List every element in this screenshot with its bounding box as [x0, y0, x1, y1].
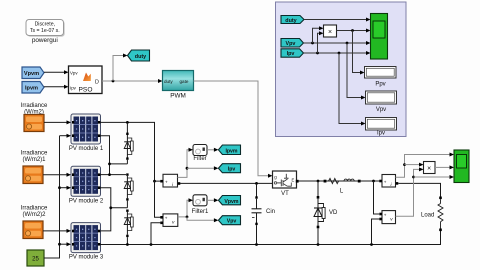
svg-text:Filter1: Filter1 [192, 209, 209, 215]
wire product to scope input 2 [435, 165, 454, 169]
svg-text:PWM: PWM [170, 93, 186, 100]
svg-text:Ipvm: Ipvm [25, 86, 38, 92]
wire duty to scope input 1 [304, 18, 371, 22]
wire Filter to Ipvm goto [207, 148, 218, 152]
voltage measurement v1 [160, 214, 178, 227]
product block output stage [424, 162, 436, 174]
bypass diode D1 [124, 122, 133, 163]
junction scope input 3 branch [412, 176, 415, 179]
From tag Ipvm [22, 82, 44, 94]
signal wire v1 to Filter1 and Vpv [178, 198, 193, 217]
svg-text:Ipv: Ipv [377, 130, 385, 136]
svg-text:+: + [384, 180, 387, 185]
Irradiance (W/m2)1 label [21, 151, 48, 164]
output scope [454, 150, 469, 183]
svg-text:duty: duty [285, 18, 296, 24]
display Ppv [365, 67, 397, 79]
svg-text:(W/m2)2: (W/m2)2 [23, 212, 47, 218]
svg-text:Vpvm: Vpvm [24, 71, 39, 77]
junction temp module3 [58, 243, 61, 246]
svg-text:(W/m2)1: (W/m2)1 [23, 157, 47, 163]
svg-text:powergui: powergui [32, 37, 58, 44]
wire v1 minus to bus [151, 223, 162, 245]
wire constant 25 to temperature bus [44, 244, 60, 258]
signal wire v2 to scope input 3 [396, 167, 424, 216]
signal wire i2 to scope and product [396, 153, 455, 178]
svg-text:D: D [95, 80, 99, 86]
junction on D wire [112, 80, 115, 83]
wire to scope input 3 [414, 175, 455, 179]
wire to Vpv display [347, 43, 366, 100]
junction bus VD [317, 243, 320, 246]
junction PV positive at current input [153, 180, 156, 183]
wire main line to v2 plus [374, 181, 380, 214]
wire Vpvm to PSO [44, 70, 69, 74]
junction diode1 top [126, 121, 129, 124]
wire irradiance1 to PV module 1 [44, 120, 71, 124]
junction output v2 branch [372, 180, 375, 183]
Goto tag Vpvm [218, 196, 240, 205]
Irradiance (W/m2)2 label [21, 206, 48, 219]
svg-text:Vpv: Vpv [376, 107, 386, 113]
wire node N2 module2- to module3+ [101, 188, 128, 231]
junction N2 diode stub [109, 206, 112, 209]
svg-text:PSO: PSO [79, 87, 93, 94]
junction Ppv display branch [351, 29, 354, 32]
current measurement i1 [160, 174, 180, 188]
wire PV positive to voltage measurement [155, 181, 162, 217]
From tag Vpv in panel [281, 39, 304, 48]
signal wire i1 to Filter and Ipv [178, 148, 194, 178]
wire temp to PV module 1 input 2 [60, 134, 72, 138]
svg-text:Ppv: Ppv [375, 82, 385, 88]
svg-text:Vpvm: Vpvm [224, 199, 239, 205]
junction bus Cin [255, 243, 258, 246]
wire product to scope input 2 [337, 29, 371, 33]
junction N1 diode1 stub [108, 163, 111, 166]
svg-text:duty: duty [164, 79, 173, 84]
svg-text:×: × [427, 165, 431, 172]
junction product input1 [403, 163, 406, 166]
svg-text:Vpv: Vpv [70, 70, 78, 75]
irradiance source 2 [23, 166, 43, 184]
svg-text:Filter: Filter [193, 156, 206, 162]
wire PV string positive rail [101, 122, 161, 181]
svg-text:+: + [165, 216, 168, 221]
Irradiance (W/m2) label [21, 103, 48, 116]
display Ipv [366, 118, 397, 131]
wire Ipv to product input 2 [318, 31, 324, 53]
bypass diode D2 [124, 173, 133, 207]
junction Cin [255, 182, 258, 185]
Filter1 block [193, 195, 207, 206]
capacitor Cin [252, 183, 262, 244]
svg-text:Vpv: Vpv [286, 41, 296, 47]
junction Vpv display branch [346, 42, 349, 45]
svg-text:Ts = 1e-07 s.: Ts = 1e-07 s. [30, 28, 60, 34]
Filter block [193, 145, 207, 156]
PV module 1 [71, 114, 101, 144]
wire main line i1 to VT [180, 182, 273, 184]
svg-text:Ipv: Ipv [228, 167, 236, 173]
current measurement i2 [379, 175, 398, 189]
IGBT switch VT [273, 171, 299, 188]
wire negative return bus [101, 231, 441, 245]
svg-text:+: + [165, 180, 168, 185]
svg-text:Ipv: Ipv [70, 85, 77, 90]
junction bus output voltage measurement [370, 243, 373, 246]
subsystem display panel background [276, 2, 407, 137]
wire Vpv to scope input 3 [304, 41, 371, 45]
inductor L [324, 178, 361, 183]
wire irradiance2 to PV module 2 [43, 173, 71, 177]
wire to Vpv goto [187, 217, 218, 222]
junction Vpv to product [311, 42, 314, 45]
wire temp to PV module 3 input 2 [60, 242, 72, 246]
Goto tag Ipv [218, 164, 240, 173]
junction Vpv branch [186, 216, 189, 219]
svg-text:Irradiance: Irradiance [21, 206, 48, 212]
junction bus diode3 [126, 243, 129, 246]
junction Ipv display branch [338, 52, 341, 55]
svg-text:Load: Load [421, 213, 434, 219]
svg-text:Discrete,: Discrete, [35, 21, 55, 27]
wire junction up to duty Goto [113, 54, 128, 82]
wire Filter1 to Vpvm goto [207, 198, 218, 202]
Goto tag duty [128, 50, 150, 61]
From tag Vpvm [22, 67, 44, 79]
svg-text:×: × [328, 29, 332, 36]
irradiance source 1 [24, 115, 44, 132]
powergui block [26, 20, 65, 37]
panel scope [371, 14, 388, 60]
wire temp to PV module 2 input 2 [60, 186, 72, 190]
svg-text:Cin: Cin [266, 209, 275, 215]
wire v2 minus to bus [372, 219, 380, 245]
voltage measurement v2 [379, 211, 395, 224]
svg-text:E: E [292, 177, 295, 182]
svg-text:PV module 2: PV module 2 [69, 198, 104, 204]
product block in panel [324, 25, 337, 37]
PSO MPPT controller block U1 [69, 66, 103, 94]
svg-text:PV module 3: PV module 3 [69, 255, 104, 261]
wire Ipv to scope input 4 [304, 51, 371, 55]
wire Vpv to product input 1 [313, 26, 324, 43]
display Vpv [366, 91, 397, 104]
wire node N1 module1- to module2+ [101, 136, 128, 175]
junction Ipv to product [316, 52, 319, 55]
wire to Ipv display [339, 53, 366, 126]
wire to Ppv display [353, 31, 365, 75]
junction temp module2 [58, 186, 61, 189]
wire PWM gate to VT gate [194, 81, 273, 178]
junction N1 module2 [108, 173, 111, 176]
wire to product input 1 [405, 163, 424, 167]
PV module 3 [71, 223, 101, 253]
temperature vertical wire [59, 136, 61, 245]
Goto tag Vpv [218, 216, 240, 225]
bypass diode D3 [124, 210, 133, 245]
freewheeling diode VD [314, 181, 325, 245]
svg-text:+: + [384, 212, 387, 217]
svg-text:VD: VD [329, 210, 338, 216]
wire Ipvm to PSO [44, 85, 69, 89]
wire to Ipv goto [187, 166, 218, 170]
wire PSO D output to PWM [102, 79, 163, 83]
svg-text:Ipv: Ipv [287, 51, 295, 57]
From tag duty in panel [281, 16, 304, 24]
junction bus voltage measurement [150, 243, 153, 246]
Goto tag Ipvm [218, 145, 240, 155]
load resistor [438, 197, 443, 232]
svg-text:L: L [340, 188, 344, 194]
svg-text:PV module 1: PV module 1 [69, 146, 104, 152]
svg-text:duty: duty [135, 54, 146, 60]
wire VT to L to i2 [299, 180, 382, 182]
temperature constant 25 [27, 250, 44, 266]
junction Ipv branch [186, 167, 189, 170]
wire irradiance3 to PV module 3 [43, 229, 71, 233]
PWM generator block [163, 71, 194, 91]
PV module 2 [71, 166, 101, 196]
svg-text:Ipvm: Ipvm [225, 148, 237, 154]
From tag Ipv in panel [281, 49, 304, 57]
wire i2 to Load [398, 183, 440, 197]
svg-text:Vpv: Vpv [227, 219, 237, 225]
svg-text:gate: gate [180, 79, 189, 84]
irradiance source 3 [23, 221, 43, 239]
junction VD [317, 180, 320, 183]
svg-text:Irradiance: Irradiance [21, 151, 48, 157]
svg-text:VT: VT [281, 191, 289, 197]
svg-text:25: 25 [32, 257, 39, 263]
svg-text:Irradiance: Irradiance [21, 103, 48, 109]
